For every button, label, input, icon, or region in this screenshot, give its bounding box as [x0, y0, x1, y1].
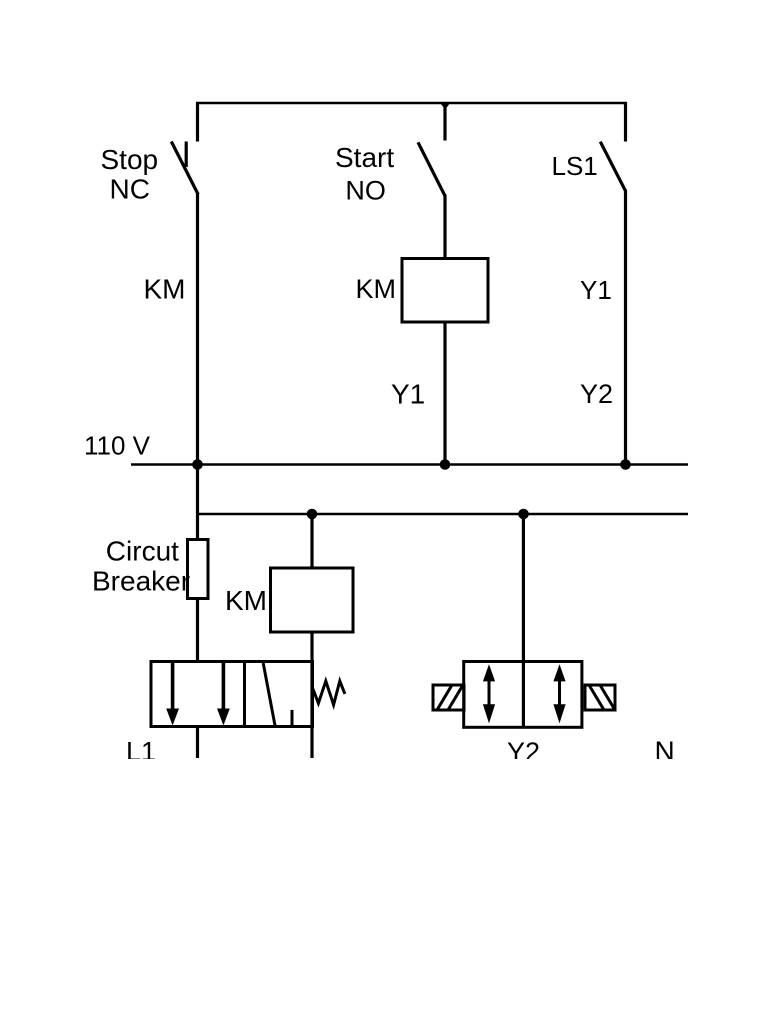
wire stub to L1 [196, 727, 199, 759]
svg-text:110 V: 110 V [84, 431, 151, 461]
svg-text:Y1: Y1 [580, 275, 612, 305]
svg-text:Start: Start [335, 142, 394, 173]
wire: KM contact to valve [310, 632, 313, 663]
valve position divider [243, 662, 246, 727]
pushbutton Start (NO contact) [418, 142, 445, 195]
svg-text:KM: KM [144, 274, 186, 305]
wire: Stop contact to 110V rail [196, 194, 199, 466]
junction dot (Stop branch / 110V rail) [192, 459, 203, 470]
wire: 110V rail down to circuit breaker [196, 465, 199, 541]
pushbutton Stop (NC contact) [171, 142, 198, 195]
junction dot (LS1 branch / 110V rail) [620, 459, 631, 470]
svg-text:Breaker: Breaker [92, 566, 190, 597]
wire: breaker to valve inlet [196, 599, 199, 663]
limit switch LS1 (NO contact) [600, 142, 626, 192]
junction dot (valve Y2 branch / lower rail) [518, 509, 529, 520]
blocked port stub [291, 710, 294, 727]
wire: LS1 to 110V rail [624, 191, 627, 466]
wire stub (valve right port) [310, 662, 313, 759]
double arrow (right chamber) [553, 664, 565, 723]
wire: coil to 110V rail [443, 322, 446, 465]
circuit breaker [188, 540, 209, 599]
wire: Start contact to coil KM [443, 195, 446, 260]
svg-text:N: N [655, 736, 675, 767]
110 V supply rail [131, 463, 688, 465]
junction dot (coil branch / 110V rail) [440, 459, 451, 470]
blocked port diagonal [263, 663, 275, 726]
svg-text:NC: NC [110, 174, 150, 205]
solenoid coil (left, hatched) [433, 685, 464, 710]
wire: rail to Start contact [443, 103, 446, 141]
lower control rail [198, 513, 689, 515]
wire: rail to Stop contact [196, 102, 199, 142]
flow arrow 2 [217, 662, 230, 726]
svg-text:NO: NO [345, 175, 386, 205]
svg-text:Y1: Y1 [391, 378, 425, 409]
solenoid coil (right, hatched) [585, 685, 615, 710]
svg-text:L1: L1 [126, 737, 156, 767]
coil KM (contactor coil) [402, 259, 488, 323]
top supply rail [196, 102, 627, 104]
double arrow (left chamber) [483, 664, 495, 723]
contact KM (contactor contact block) [271, 568, 354, 632]
svg-text:Circut: Circut [106, 536, 179, 567]
solenoid valve Y2 body [464, 662, 582, 728]
directional control valve body [151, 662, 313, 727]
return spring [313, 681, 345, 705]
flow arrow 1 [166, 662, 179, 726]
wire: rail to limit switch LS1 [624, 102, 627, 142]
svg-text:KM: KM [356, 274, 397, 304]
wire: lower rail to KM contact [310, 514, 313, 569]
svg-text:KM: KM [225, 585, 267, 616]
junction tick (Start branch tap) [439, 102, 450, 110]
svg-text:Y2: Y2 [507, 737, 540, 767]
junction dot (KM contact branch / lower rail) [307, 509, 318, 520]
svg-text:LS1: LS1 [552, 151, 598, 181]
wire: lower rail to solenoid valve Y2 [522, 514, 525, 727]
svg-text:Y2: Y2 [580, 379, 613, 409]
svg-text:Stop: Stop [101, 144, 159, 175]
